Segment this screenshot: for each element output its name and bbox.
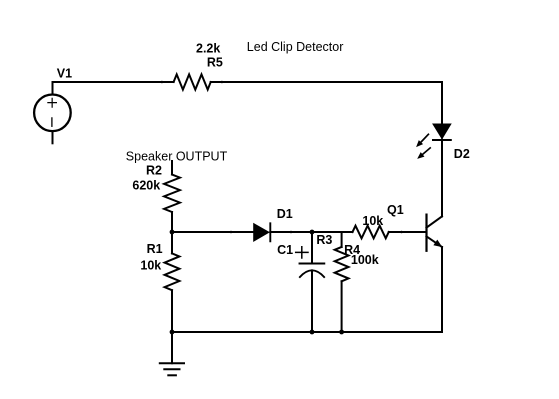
wire emitter down	[441, 247, 443, 332]
node rail R1	[170, 330, 175, 335]
pin dot R5 left	[161, 81, 164, 84]
wire LED to Q1 collector	[441, 140, 443, 217]
svg-text:R2: R2	[146, 163, 162, 177]
wire	[211, 81, 442, 83]
svg-text:620k: 620k	[132, 178, 160, 192]
svg-text:Speaker OUTPUT: Speaker OUTPUT	[126, 150, 228, 164]
wire base	[389, 231, 427, 233]
svg-text:D1: D1	[277, 207, 293, 221]
voltage source V1	[34, 82, 71, 143]
svg-text:C1: C1	[277, 243, 293, 257]
capacitor C1	[296, 232, 325, 332]
wire right drop to LED	[441, 82, 443, 124]
LED D2	[417, 124, 451, 158]
svg-text:Q1: Q1	[387, 203, 404, 217]
pin dot R3 right	[400, 231, 403, 234]
svg-text:10k: 10k	[362, 214, 383, 228]
pin dot D1 left	[230, 231, 233, 234]
resistor R3 10k horizontal	[353, 226, 389, 239]
transistor Q1	[427, 215, 443, 251]
svg-text:100k: 100k	[351, 253, 379, 267]
svg-text:D2: D2	[454, 147, 470, 161]
svg-text:V1: V1	[57, 67, 72, 81]
ground	[160, 332, 184, 375]
wire bottom rail	[172, 331, 442, 333]
resistor R5	[174, 74, 211, 89]
pin dot D1 right	[290, 231, 293, 234]
svg-text:10k: 10k	[140, 258, 161, 272]
svg-text:R3: R3	[316, 233, 332, 247]
svg-text:Led Clip Detector: Led Clip Detector	[247, 40, 344, 54]
node R2/R1/D1	[170, 230, 175, 235]
diode D1	[172, 223, 312, 241]
node D1/C1/R3	[310, 230, 315, 235]
node rail R4	[339, 330, 344, 335]
resistor R1	[165, 232, 180, 332]
svg-text:R1: R1	[147, 242, 163, 256]
wire top rail	[53, 81, 174, 83]
svg-text:2.2k: 2.2k	[196, 41, 220, 55]
node rail C1	[310, 330, 315, 335]
svg-text:R5: R5	[207, 56, 223, 70]
resistor R4	[335, 232, 349, 332]
wire node to R3	[312, 231, 353, 233]
pin dot R5 right	[221, 81, 224, 84]
resistor R2	[164, 161, 180, 232]
